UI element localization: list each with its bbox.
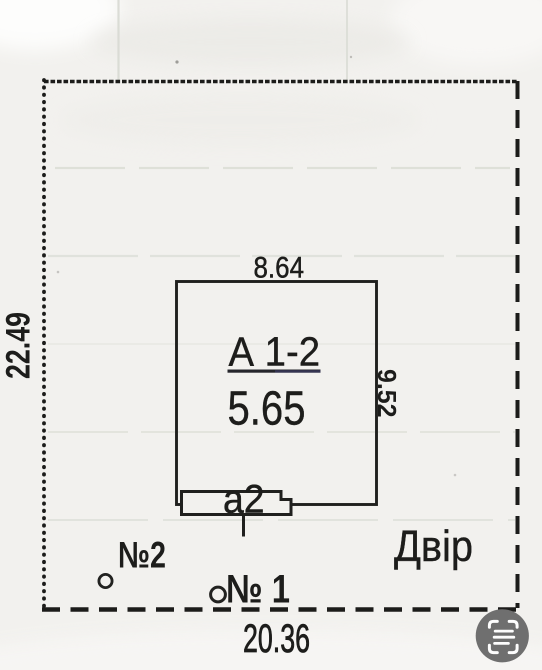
svg-text:20.36: 20.36	[243, 617, 310, 661]
svg-text:5.65: 5.65	[228, 383, 306, 436]
svg-text:Двір: Двір	[394, 522, 473, 571]
boundary right dashed line	[516, 81, 520, 608]
scan speck 1	[175, 60, 178, 63]
grid line vertical 2	[346, 0, 348, 80]
boundary top dotted line	[44, 80, 518, 83]
svg-text:№2: №2	[118, 535, 166, 576]
scan icon bracket top-right	[509, 621, 517, 627]
svg-text:22.49: 22.49	[0, 312, 38, 379]
porch pointer tick	[242, 513, 245, 537]
svg-text:№ 1: № 1	[226, 568, 290, 612]
svg-text:8.64: 8.64	[254, 252, 305, 285]
marker circle No2	[99, 574, 112, 587]
scan icon bracket top-left	[489, 621, 497, 627]
grid line horizontal 5	[48, 519, 515, 521]
marker circle No1	[211, 587, 226, 602]
boundary bottom dashed line	[42, 607, 518, 612]
scan icon text line 2	[494, 636, 514, 639]
scan speck 4	[454, 474, 457, 477]
underline of A 1-2	[228, 370, 321, 373]
boundary left dotted line	[42, 80, 46, 609]
grid line horizontal 3	[48, 343, 515, 345]
grid line vertical 1	[117, 0, 119, 80]
building A1-2 outline	[177, 282, 377, 505]
scan speck 2	[350, 56, 352, 58]
grid line horizontal 2	[48, 255, 515, 257]
grid line horizontal 1	[55, 167, 510, 169]
scan icon text line 1	[495, 630, 512, 633]
scan icon bracket bottom-right	[509, 645, 517, 652]
scan icon text line 3	[495, 642, 509, 645]
blue tint on underline	[275, 370, 321, 372]
scan speck 3	[57, 271, 60, 274]
porch a2 outline	[182, 492, 292, 515]
scan icon bracket bottom-left	[489, 645, 497, 652]
scan icon circle	[476, 609, 529, 662]
svg-text:А 1-2: А 1-2	[229, 329, 321, 375]
grid line horizontal 4	[48, 431, 515, 433]
svg-text:9.52: 9.52	[372, 369, 402, 418]
